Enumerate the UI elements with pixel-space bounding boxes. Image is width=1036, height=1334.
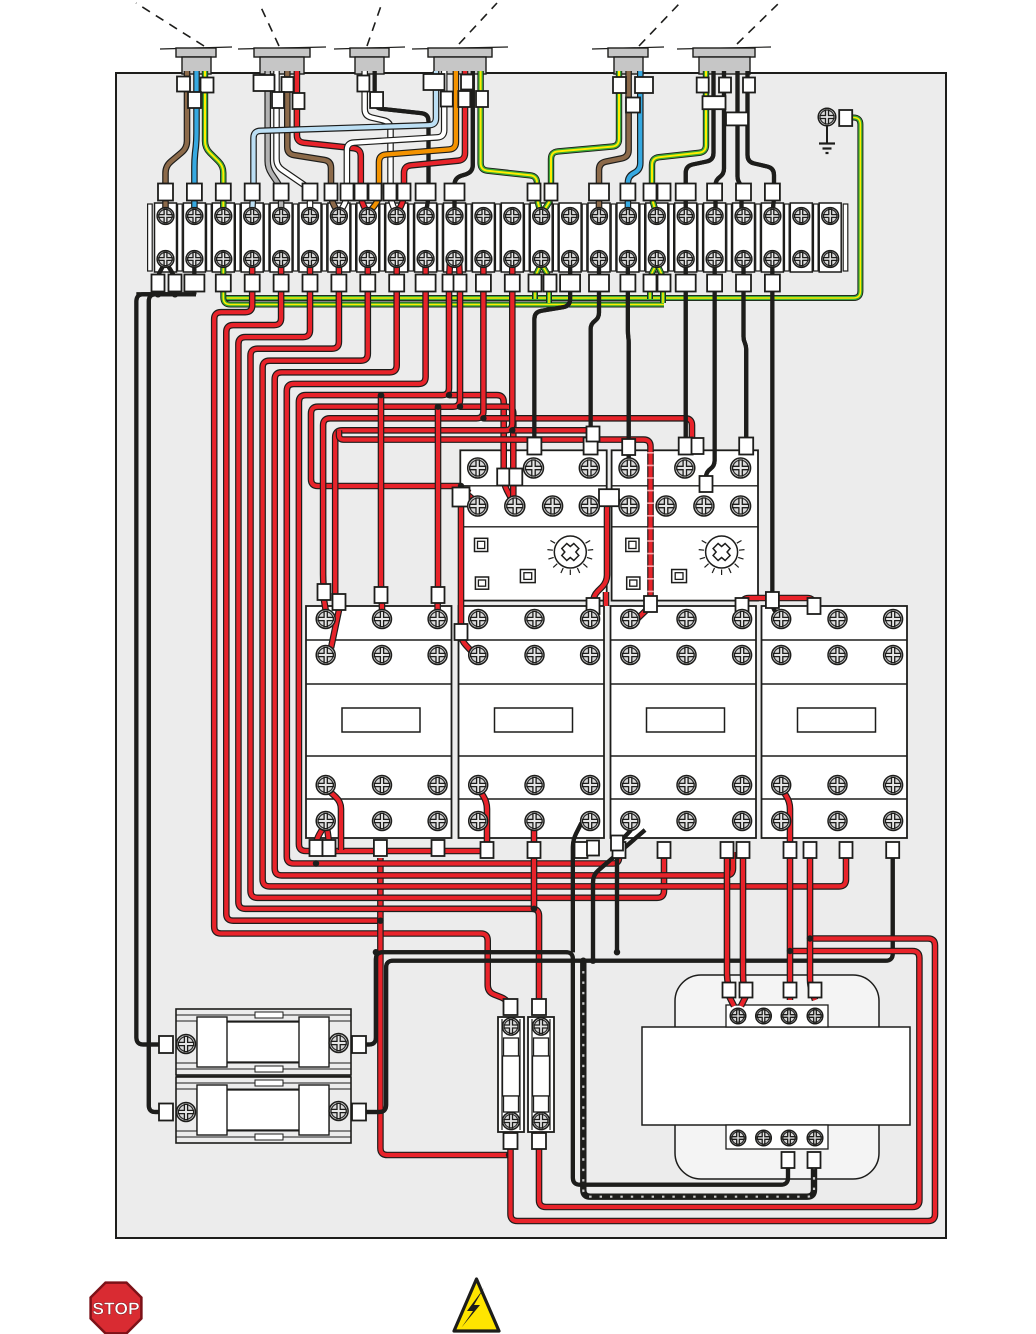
screw K4 row2 xyxy=(884,646,903,665)
screw K3 T row xyxy=(677,812,696,831)
screw K1 row3 xyxy=(316,776,335,795)
terminal X1:7 xyxy=(328,203,350,272)
screw K1 T row xyxy=(373,812,392,831)
screw K1 L row xyxy=(316,610,335,629)
ferrule K1 out a xyxy=(310,840,323,856)
wire black twisted drop to transformer xyxy=(583,961,814,1197)
screw X1:2 top xyxy=(186,208,203,225)
wire red t6 circuit xyxy=(251,262,665,898)
wire black 4 from G6 xyxy=(748,71,775,212)
terminal X1:16 xyxy=(588,203,610,272)
screw X1:11 bottom xyxy=(446,251,463,268)
screw X1:8 top xyxy=(359,208,376,225)
ferrule gland G5 b xyxy=(635,77,653,93)
ferrule T2 aux left xyxy=(622,439,635,455)
ferrule X1:10 bottom xyxy=(416,275,436,292)
screw X1:17 bottom xyxy=(620,251,637,268)
terminal X1:15 xyxy=(559,203,581,272)
ferrule X1:7 top b xyxy=(341,184,354,201)
ferrule X1:19 top xyxy=(676,184,696,201)
screw K2 row3 xyxy=(469,776,488,795)
screw X1:5 bottom xyxy=(273,251,290,268)
ferrule K1 out c xyxy=(432,840,445,856)
screw X1:7 top xyxy=(331,208,348,225)
wire red bridge K3-K4 xyxy=(742,598,814,616)
screw X1:6 top xyxy=(302,208,319,225)
wire black from G3 xyxy=(375,71,429,212)
screw K4 T row xyxy=(772,812,791,831)
wire black t1 to bus xyxy=(192,262,196,294)
screw TR1 primary xyxy=(807,1008,823,1024)
ferrule T2 in red xyxy=(692,438,704,454)
wire red t11 to T2 xyxy=(483,418,692,440)
wire black t19 to T2 aux xyxy=(706,262,715,490)
screw X1:4 top xyxy=(244,208,261,225)
ferrule X1:11 bottom a xyxy=(443,275,456,292)
ferrule TR1 in pair a xyxy=(723,983,736,998)
wire red hook K1 TL xyxy=(324,600,326,612)
ferrule T1 in red xyxy=(587,427,600,442)
screw TR1 primary xyxy=(781,1008,797,1024)
wire red t9 circuit xyxy=(287,262,619,864)
wire red t12 to T1 xyxy=(512,430,593,440)
transformer bottom terminal block xyxy=(726,1125,828,1149)
ferrule gland G4 b xyxy=(441,92,453,107)
contactor K4 xyxy=(762,606,908,838)
screw K4 T row xyxy=(828,812,847,831)
ferrule R1 left xyxy=(159,1036,173,1053)
wire red T1 aux to K2 xyxy=(461,490,474,654)
wire red t4 circuit xyxy=(226,262,380,921)
screw K4 L row xyxy=(884,610,903,629)
ferrule TR1 out 3 xyxy=(782,1152,795,1168)
ferrule X1:1 top xyxy=(158,184,173,201)
wire black 1 from G6 xyxy=(686,71,714,212)
ferrule R2 left xyxy=(159,1104,173,1121)
screw K2 row2 xyxy=(525,646,544,665)
screw K3 L row xyxy=(733,610,752,629)
ferrule K2 TR in xyxy=(587,598,600,614)
screw R2 left xyxy=(177,1103,196,1122)
ferrule F2 top xyxy=(532,999,546,1015)
screw X1:21 bottom xyxy=(735,251,752,268)
ferrule X1:19 bottom xyxy=(676,275,696,292)
ferrule gland G4 d xyxy=(461,75,473,90)
terminal X1:2 xyxy=(183,203,205,272)
screw T1 row1 xyxy=(579,458,599,478)
ferrule X1:14 top b xyxy=(545,184,558,201)
screw X1:8 bottom xyxy=(359,251,376,268)
screw X1:5 top xyxy=(273,208,290,225)
screw X1:12 top xyxy=(475,208,492,225)
screw F1 top xyxy=(502,1018,519,1035)
wire black t20 to T2 xyxy=(744,262,747,440)
ferrule X1:6 top xyxy=(303,184,318,201)
wire light-blue from G4 xyxy=(252,71,436,212)
dial T2 xyxy=(699,536,745,575)
screw TR1 primary xyxy=(730,1008,746,1024)
ferrule gland G6 c xyxy=(743,78,755,93)
wire red K1 right feed xyxy=(434,407,441,614)
screw K1 row2 xyxy=(316,646,335,665)
screw X1:2 bottom xyxy=(186,251,203,268)
ferrule F1 bottom xyxy=(504,1133,518,1149)
ballast R2 xyxy=(176,1077,351,1143)
ferrule T2 top a xyxy=(679,438,693,455)
wire black t18 to T2 xyxy=(684,262,688,440)
ferrule TR1 out 4 xyxy=(808,1152,821,1168)
terminal X1:17 xyxy=(617,203,639,272)
ferrule X1:2 top xyxy=(187,184,202,201)
ferrule gland G2 d xyxy=(293,93,305,109)
wire PE t17 stub a (green-yellow PE) xyxy=(650,264,657,299)
screw X1:18 top xyxy=(648,208,665,225)
wire red t10a to T1 coil xyxy=(449,395,513,502)
ferrule K3 aux a xyxy=(611,836,623,851)
ferrule K4 out b xyxy=(804,842,817,858)
screw K4 row3 xyxy=(772,776,791,795)
ferrule K1 in a xyxy=(318,584,331,600)
screw X1:22 top xyxy=(764,208,781,225)
wire black ballast2 out xyxy=(356,852,893,1112)
STOP sign icon xyxy=(91,1283,142,1334)
ferrule TR1 in pair b xyxy=(740,983,753,998)
screw K1 T row xyxy=(428,812,447,831)
ferrule X1:16 top xyxy=(589,184,609,201)
dial T1 xyxy=(547,536,593,575)
screw F1 bottom xyxy=(502,1112,519,1129)
ferrule gland G4 c xyxy=(458,91,470,107)
ferrule X1:7 bottom xyxy=(331,275,346,292)
wire black K3 aux drop A xyxy=(617,830,631,952)
ferrule K3 out pair2 xyxy=(737,842,750,858)
screw K4 row3 xyxy=(828,776,847,795)
svg-text:STOP: STOP xyxy=(92,1299,140,1319)
wire red loop K4 row3 xyxy=(781,788,790,846)
screw X1:14 bottom xyxy=(533,251,550,268)
cable gland G3 xyxy=(334,3,405,74)
screw T2 row2 xyxy=(656,496,676,516)
screw K2 row3 xyxy=(525,776,544,795)
ferrule K3 aux b xyxy=(587,841,599,856)
ferrule X1:16 bottom xyxy=(589,275,609,292)
ferrule gland G3 b xyxy=(370,92,383,108)
ferrule X1:1 bottom b xyxy=(169,275,182,292)
wire PE from G6 (green-yellow PE) xyxy=(652,71,706,214)
screw T2 row1 xyxy=(731,458,751,478)
wire red t5 circuit xyxy=(238,262,539,1000)
wire red t12 circuit xyxy=(335,262,512,606)
wire black 3 from G6 xyxy=(738,71,742,212)
ferrule T1 top b xyxy=(584,438,598,455)
wire PE from G5 (green-yellow PE) xyxy=(541,71,619,214)
screw X1:15 top xyxy=(562,208,579,225)
wire PE bus lower (green-yellow PE) xyxy=(223,262,664,305)
screw X1:6 bottom xyxy=(302,251,319,268)
screw K2 T row xyxy=(525,812,544,831)
ferrule X1:4 top xyxy=(245,184,260,201)
ferrule TR1 in 3 xyxy=(784,983,797,998)
ferrule K1 in right xyxy=(432,587,445,603)
contactor K2 xyxy=(459,606,605,838)
wire red loop K2 row3 xyxy=(478,788,487,846)
terminal X1:13 xyxy=(501,203,523,272)
screw K3 row3 xyxy=(677,776,696,795)
terminal X1:4 xyxy=(241,203,263,272)
terminal X1:9 xyxy=(386,203,408,272)
screw TR1 primary xyxy=(756,1008,772,1024)
screw K4 row2 xyxy=(828,646,847,665)
ferrule K3 out a xyxy=(613,842,626,858)
wire red t7 circuit xyxy=(263,262,846,886)
screw X1:16 bottom xyxy=(591,251,608,268)
ferrule X1:3 top xyxy=(216,184,231,201)
screw K3 row3 xyxy=(621,776,640,795)
screw T1 row1 xyxy=(524,458,544,478)
screw K2 row3 xyxy=(581,776,600,795)
ferrule T1 aux left xyxy=(453,488,470,507)
transformer top terminal block xyxy=(726,1005,828,1027)
screw K4 L row xyxy=(828,610,847,629)
ferrule gland G6 a xyxy=(697,78,709,93)
wire blue from G5 xyxy=(628,71,640,212)
ferrule X1:18 top b xyxy=(658,184,671,201)
wire brown from G5 xyxy=(599,71,629,212)
ferrule X1:13 bottom xyxy=(505,275,520,292)
wire black 2 from G6 xyxy=(716,71,725,212)
screw T2 row1 xyxy=(675,458,695,478)
ferrule X1:4 bottom xyxy=(245,275,260,292)
wire red T2 to K2 xyxy=(593,497,627,614)
indicator squares T1 xyxy=(475,538,536,589)
cable gland G5 xyxy=(592,4,679,74)
cable gland G2 xyxy=(238,3,326,74)
wire red feeder to K3 (with crossing ticks) xyxy=(339,430,651,622)
screw K1 row3 xyxy=(373,776,392,795)
screw X1:15 bottom xyxy=(562,251,579,268)
wire black t16 to T2 xyxy=(626,262,631,460)
terminal X1:6 xyxy=(299,203,321,272)
screw K3 L row xyxy=(677,610,696,629)
screw R1 left xyxy=(177,1035,196,1054)
screw TR1 secondary xyxy=(781,1130,797,1146)
screw X1:9 bottom xyxy=(388,251,405,268)
wire red t10b circuit xyxy=(311,262,461,486)
ferrule R1 right xyxy=(352,1036,366,1053)
ferrule X1:7 top a xyxy=(325,184,338,201)
ferrule gland G1 c xyxy=(188,92,201,108)
screw X1:19 bottom xyxy=(677,251,694,268)
screw T1 row2 xyxy=(579,496,599,516)
screw T2 row2 xyxy=(731,496,751,516)
screw X1:16 top xyxy=(591,208,608,225)
screw X1:12 bottom xyxy=(475,251,492,268)
wire red V TR1 a xyxy=(729,996,734,1006)
ferrule X1:9 top a xyxy=(384,184,397,201)
ferrule X1:9 top b xyxy=(398,184,411,201)
wire orange from G4 xyxy=(368,71,456,214)
ferrule K4 out c xyxy=(886,842,899,858)
screw K4 row2 xyxy=(772,646,791,665)
ferrule X1:14 bottom b xyxy=(544,275,557,292)
ferrule X1:20 bottom xyxy=(707,275,722,292)
screw K3 L row xyxy=(621,610,640,629)
contactor K3 xyxy=(611,606,757,838)
electrical hazard warning triangle xyxy=(454,1279,499,1331)
wire red t10b to T1 coil xyxy=(460,407,513,502)
wire brown from G2 xyxy=(287,71,339,214)
screw F2 top xyxy=(532,1018,549,1035)
ferrule F2 bottom xyxy=(532,1133,546,1149)
ferrule X1:21 top xyxy=(736,184,751,201)
ferrule X1:11 top xyxy=(445,184,465,201)
screw TR1 secondary xyxy=(756,1130,772,1146)
screw X1:7 bottom xyxy=(331,251,348,268)
screw X1:4 bottom xyxy=(244,251,261,268)
wire white from G4 xyxy=(339,71,444,214)
cable gland G4 xyxy=(412,3,508,74)
screw T2 row2 xyxy=(619,496,639,516)
wire black down-left B xyxy=(149,261,175,1112)
ferrule R2 right xyxy=(352,1104,366,1121)
ferrule K1 out mid xyxy=(374,840,387,856)
wire red V K1 bottom b xyxy=(326,823,329,856)
ferrule K2 out a xyxy=(481,842,494,858)
ferrule X1:17 bottom xyxy=(620,275,635,292)
ferrule X1:11 bottom b xyxy=(454,275,467,292)
wire black K3 aux drop B xyxy=(593,830,645,961)
wire red t10a circuit xyxy=(299,262,487,852)
wire red jumper K1 row2 xyxy=(331,610,339,648)
screw X1:17 top xyxy=(620,208,637,225)
indicator squares T2 xyxy=(626,538,687,589)
wire blue N from G1 xyxy=(194,71,196,212)
ferrule gland G6 e xyxy=(726,112,748,125)
ferrule X1:22 top xyxy=(765,184,780,201)
ferrule X1:14 top a xyxy=(528,184,541,201)
screw X1:22 bottom xyxy=(764,251,781,268)
screw X1:18 bottom xyxy=(648,251,665,268)
ferrule gland G5 c xyxy=(626,98,640,113)
wire PE t13 stub b (green-yellow PE) xyxy=(541,264,549,303)
wire PE t13 stub a (green-yellow PE) xyxy=(535,264,541,299)
screw X1:13 top xyxy=(504,208,521,225)
ferrule T2 aux wide xyxy=(599,489,619,506)
ferrule X1:5 bottom xyxy=(274,275,289,292)
wire black down-left A xyxy=(136,261,166,1045)
terminal X1:20 xyxy=(704,203,726,272)
screw X1:11 top xyxy=(446,208,463,225)
ferrule X1:10 top xyxy=(416,184,436,201)
screw K3 row3 xyxy=(733,776,752,795)
screw X1:20 top xyxy=(706,208,723,225)
ferrule gland G1 a xyxy=(177,77,190,92)
transformer winding band xyxy=(642,1027,910,1125)
ferrule K3 out b xyxy=(658,842,671,858)
ferrule K4 out mid xyxy=(840,842,853,858)
screw K2 row2 xyxy=(581,646,600,665)
wire PE from G4 (green-yellow PE) xyxy=(481,71,542,214)
ballast R1 xyxy=(176,1009,351,1075)
ferrule gland G6 d xyxy=(703,96,726,109)
contactor K1 xyxy=(306,606,452,838)
wire red C1 coil to fuse1 xyxy=(380,858,509,1155)
ferrule K4 bridge in xyxy=(808,598,821,614)
wire red fuse2 to trafo xyxy=(539,951,919,1207)
wire black t14 to T1 xyxy=(534,262,570,440)
ferrule gland G4 e xyxy=(476,91,488,107)
terminal X1:21 xyxy=(733,203,755,272)
wire black bus under L terminals xyxy=(136,292,196,296)
ferrule K1 out b xyxy=(323,840,336,856)
screw K3 row2 xyxy=(621,646,640,665)
screw X1:1 top xyxy=(157,208,174,225)
screw TR1 secondary xyxy=(730,1130,746,1146)
ferrule X1:2 bottom xyxy=(184,275,204,292)
terminal X1:14 xyxy=(530,203,552,272)
screw X1:10 top xyxy=(417,208,434,225)
terminal X1:8 xyxy=(357,203,379,272)
screw T2 row1 xyxy=(619,458,639,478)
wire red t11 circuit xyxy=(323,262,483,592)
wire red V TR1 b xyxy=(741,996,746,1006)
screw X1:24 top xyxy=(822,208,839,225)
timer relay T1 xyxy=(460,450,606,600)
screw R1 right xyxy=(329,1034,348,1053)
terminal X1:5 xyxy=(270,203,292,272)
terminal X1:1 xyxy=(155,203,177,272)
cable gland G6 xyxy=(677,3,779,74)
screw T1 row1 xyxy=(468,458,488,478)
screw X1:3 top xyxy=(215,208,232,225)
screw X1:10 bottom xyxy=(417,251,434,268)
ferrule gland G1 b xyxy=(201,78,214,93)
screw X1:21 top xyxy=(735,208,752,225)
enclosure back panel xyxy=(116,73,946,1238)
terminal X1:3 xyxy=(212,203,234,272)
ferrule X1:22 bottom xyxy=(765,275,780,292)
ferrule X1:20 top xyxy=(707,184,722,201)
ferrule X1:8 top b xyxy=(369,184,382,201)
screw X1:20 bottom xyxy=(706,251,723,268)
ferrule TR1 in 4 xyxy=(809,983,822,998)
wire black from G4 xyxy=(455,71,473,212)
screw X1:9 top xyxy=(388,208,405,225)
ferrule X1:17 top xyxy=(620,184,635,201)
transformer TR1 body xyxy=(675,975,879,1179)
cable gland G1 xyxy=(136,3,232,74)
wire black ballast1 out xyxy=(356,952,788,1184)
wire red loop K1 row3 xyxy=(326,788,341,850)
ferrule gland G3 a xyxy=(357,76,369,92)
screw X1:14 top xyxy=(533,208,550,225)
timer relay T2 xyxy=(612,450,758,600)
wire PE from G1 (green-yellow PE) xyxy=(205,71,223,212)
fuse holder F2 xyxy=(528,1017,554,1132)
ferrule F1 top xyxy=(504,999,518,1015)
terminal X1:22 xyxy=(761,203,783,272)
screw X1:24 bottom xyxy=(822,251,839,268)
wire red V K1 bottom xyxy=(316,823,326,856)
ferrule gland G2 b xyxy=(282,77,294,92)
terminal X1:24 xyxy=(819,203,841,272)
screw X1:13 bottom xyxy=(504,251,521,268)
screw K2 L row xyxy=(469,610,488,629)
wire red K4 out to trafo A xyxy=(787,852,794,1000)
ferrule K3 feeder in xyxy=(644,596,657,612)
screw K1 row2 xyxy=(373,646,392,665)
screw K1 row3 xyxy=(428,776,447,795)
